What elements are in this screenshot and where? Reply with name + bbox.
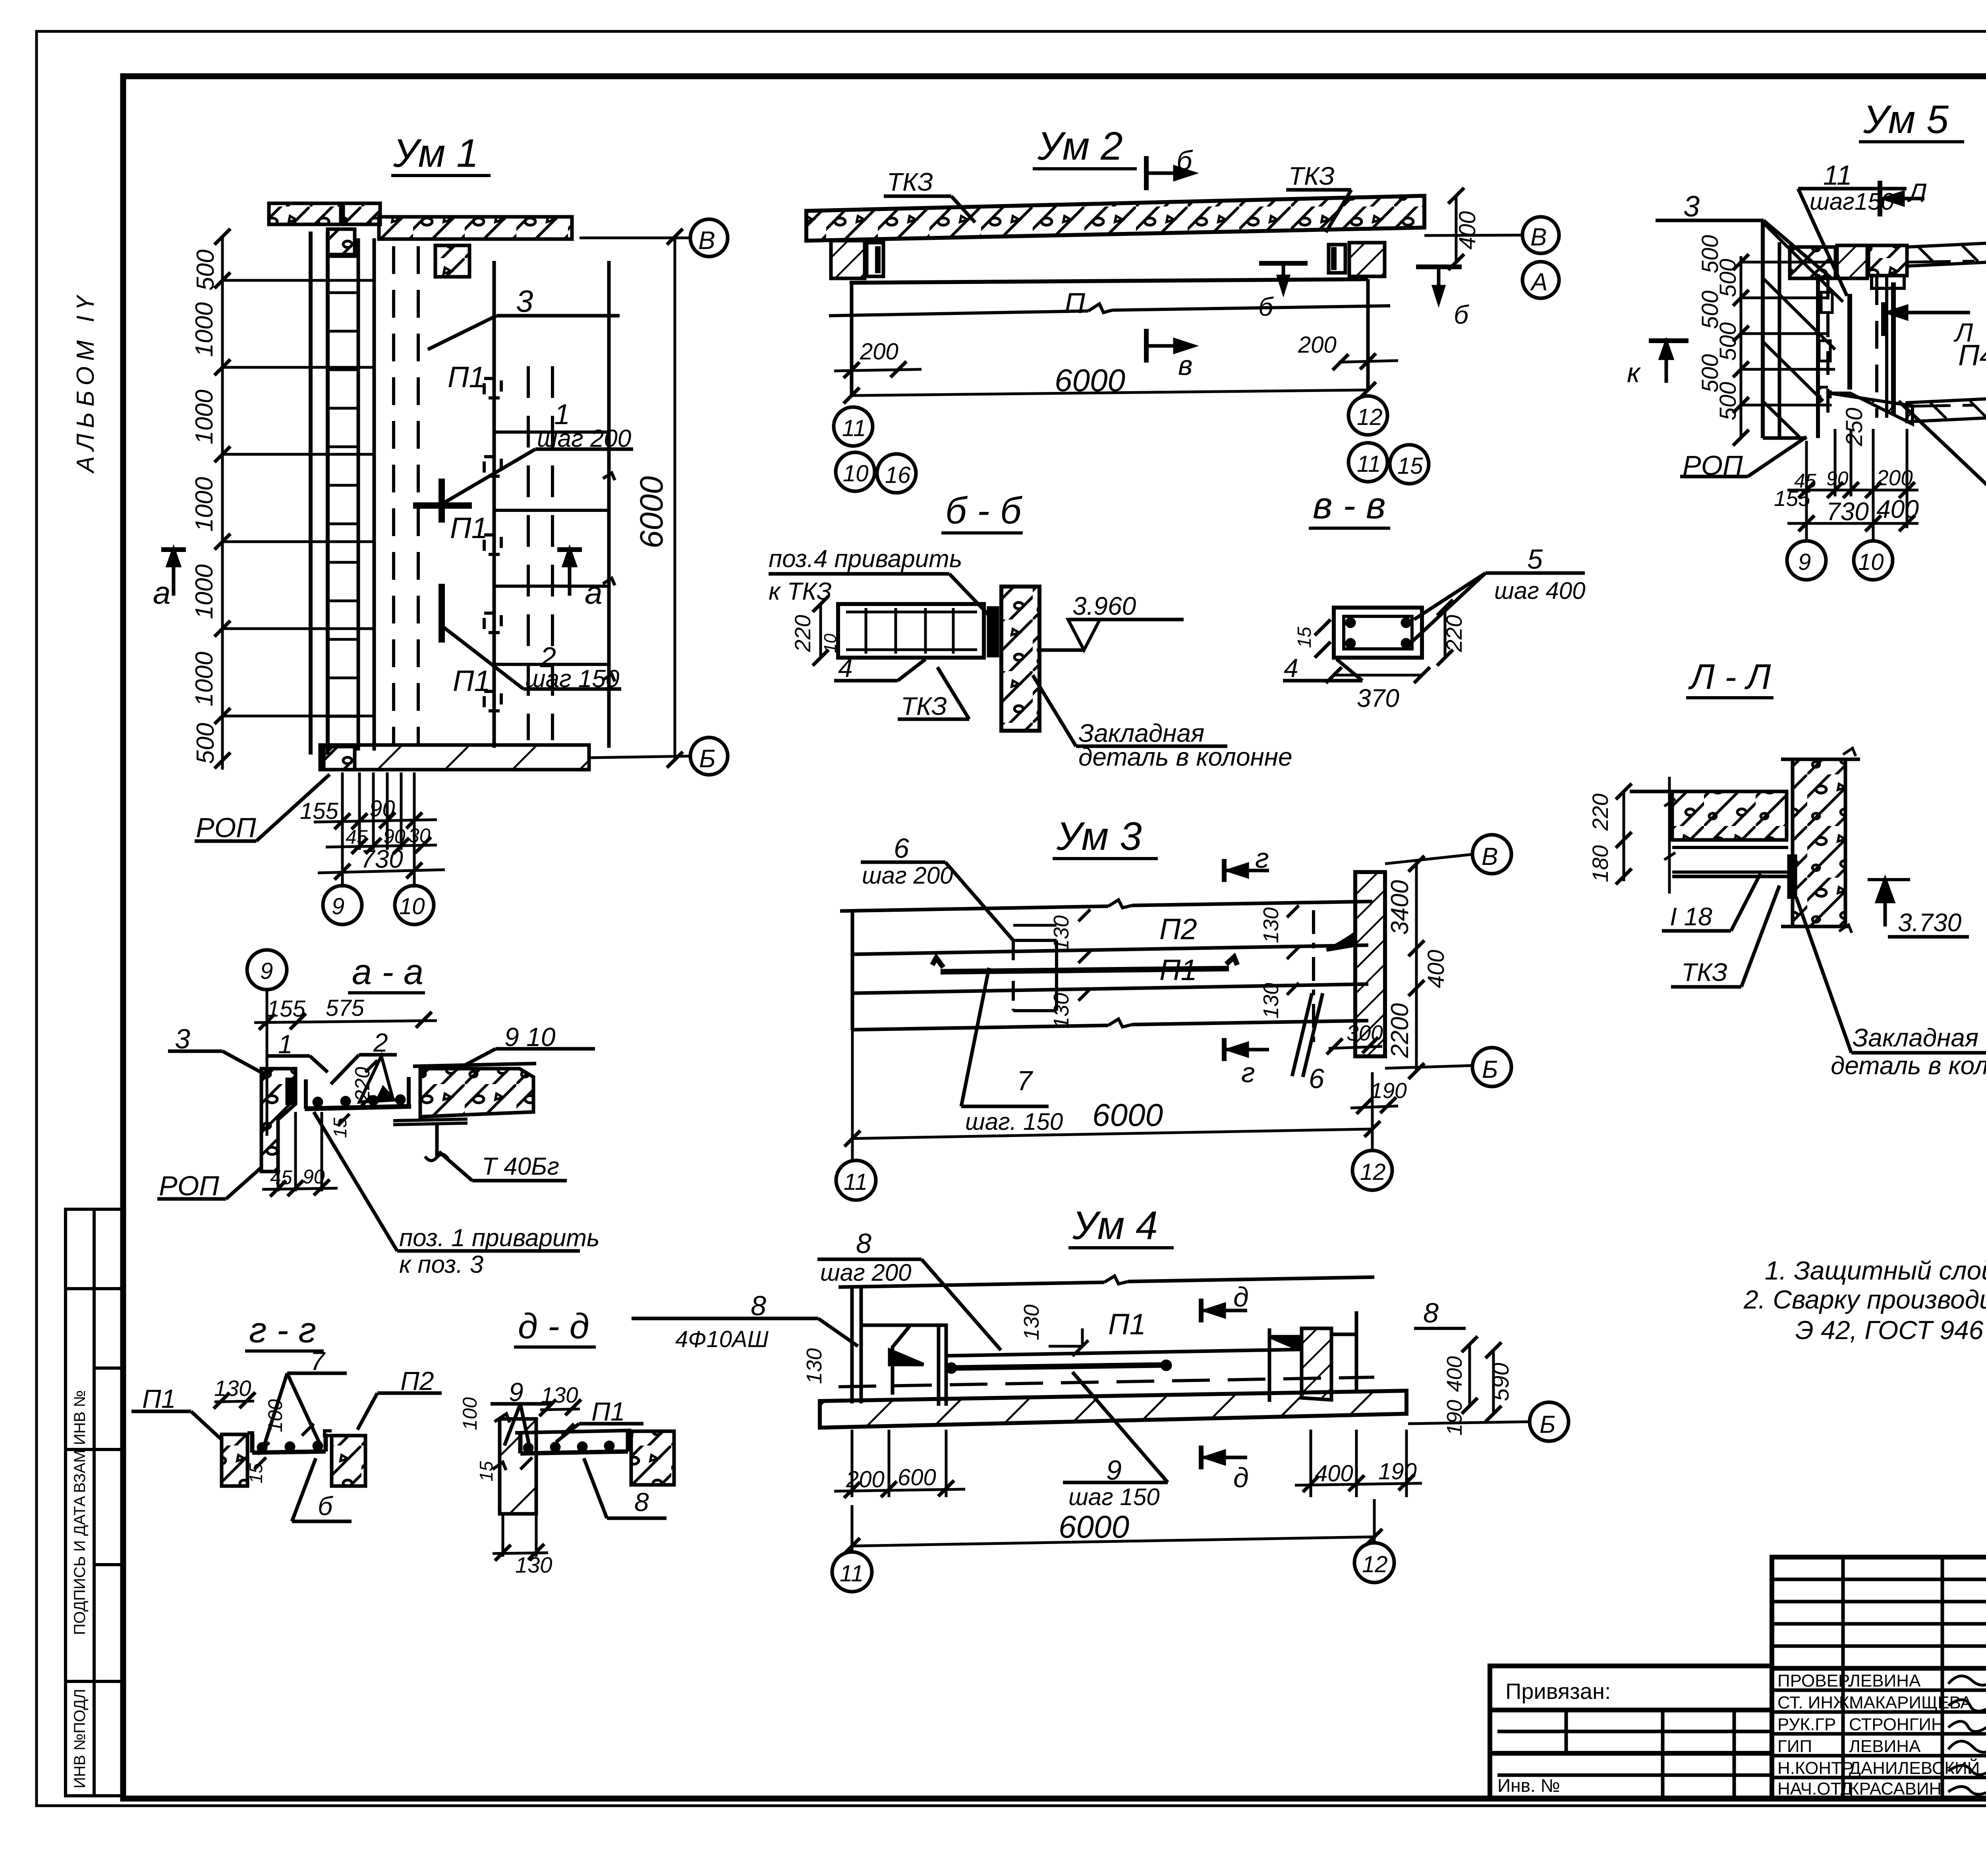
- b-b label 4 leader: [834, 679, 898, 683]
- Um5 K marks: [1649, 338, 1688, 343]
- g-g left block: [222, 1434, 247, 1486]
- svg-text:15: 15: [1294, 627, 1315, 648]
- b-b beam rect: [838, 604, 984, 658]
- L-L I18 leader: [1662, 929, 1731, 933]
- d-d slab top line: [515, 1430, 631, 1433]
- svg-text:СТРОНГИН: СТРОНГИН: [1849, 1715, 1944, 1734]
- svg-text:г: г: [1255, 843, 1269, 874]
- svg-text:730: 730: [1826, 497, 1869, 526]
- Um5 L mark bottom: [1881, 302, 1886, 336]
- svg-text:СТ. ИНЖ.: СТ. ИНЖ.: [1777, 1693, 1854, 1712]
- d-d U profile: [520, 1432, 628, 1453]
- svg-text:а: а: [585, 575, 603, 610]
- Um1 dim line 730: [318, 870, 445, 873]
- svg-text:15: 15: [330, 1117, 350, 1138]
- svg-text:1000: 1000: [191, 564, 218, 619]
- svg-text:Ум 3: Ум 3: [1056, 814, 1142, 859]
- g-g rebar dots: [259, 1444, 266, 1451]
- svg-text:4: 4: [1284, 653, 1298, 683]
- svg-text:90: 90: [1826, 467, 1849, 490]
- a-a beam U profile: [304, 1079, 308, 1109]
- a-a embedded channel dark: [287, 1079, 295, 1103]
- Um3 axis circles: [1472, 835, 1511, 874]
- Um3 slanted piece 6: [1292, 993, 1312, 1076]
- svg-text:6000: 6000: [1059, 1509, 1129, 1544]
- svg-text:АЛЬБОМ ІҮ: АЛЬБОМ ІҮ: [72, 291, 99, 474]
- svg-text:б: б: [318, 1491, 334, 1521]
- Um5 embedded plates: [1821, 292, 1832, 313]
- Um3 6000 dim: [852, 1129, 1372, 1139]
- svg-text:Закладная: Закладная: [1853, 1023, 1978, 1052]
- svg-text:6: 6: [1309, 1063, 1324, 1094]
- Um2 section mark b top: [1144, 156, 1149, 190]
- svg-text:а - а: а - а: [352, 952, 423, 992]
- L-L zakladnaya leader: [1851, 1051, 1986, 1055]
- Um5 left dim chain: [1740, 256, 1743, 439]
- b-b leaders pos4: [769, 572, 949, 576]
- svg-text:8: 8: [751, 1290, 766, 1321]
- v-v rebar dots: [1347, 619, 1354, 626]
- svg-text:11: 11: [1357, 451, 1381, 477]
- svg-text:9 10: 9 10: [504, 1022, 556, 1052]
- svg-text:155: 155: [267, 996, 306, 1022]
- svg-text:100: 100: [264, 1399, 286, 1432]
- svg-text:190: 190: [1443, 1400, 1466, 1436]
- Um3 slab top line: [840, 906, 1108, 911]
- svg-text:НАЧ.ОТД: НАЧ.ОТД: [1777, 1779, 1853, 1799]
- svg-text:12: 12: [1362, 1552, 1388, 1577]
- svg-text:6000: 6000: [1055, 363, 1125, 398]
- svg-text:шаг 150: шаг 150: [525, 665, 619, 693]
- svg-text:ПРОВЕР.: ПРОВЕР.: [1777, 1671, 1851, 1691]
- Um1 dim line row2: [326, 845, 437, 847]
- svg-text:3.960: 3.960: [1072, 592, 1136, 620]
- Um3 left edge: [851, 911, 854, 1030]
- Um3 strip verticals dash-dot: [1012, 940, 1015, 1011]
- svg-text:590: 590: [1488, 1363, 1514, 1401]
- Um5 top channel symbol: [1872, 276, 1904, 288]
- svg-text:500: 500: [1715, 382, 1741, 421]
- svg-text:КРАСАВИН: КРАСАВИН: [1849, 1779, 1942, 1799]
- Um3 break top: [1108, 900, 1132, 908]
- Um5 dim row: [1787, 489, 1918, 492]
- d-d rebar dots: [525, 1444, 532, 1451]
- svg-text:шаг 200: шаг 200: [537, 425, 631, 452]
- L-L TKZ leader: [1671, 985, 1741, 989]
- svg-text:П1: П1: [450, 511, 488, 544]
- Um3 g mark bottom: [1222, 1038, 1227, 1061]
- svg-text:90: 90: [303, 1166, 325, 1188]
- svg-text:Э 42, ГОСТ 9467-75.: Э 42, ГОСТ 9467-75.: [1795, 1315, 1986, 1345]
- svg-text:ВЗАМ ИНВ №: ВЗАМ ИНВ №: [71, 1390, 89, 1493]
- a-a ROP leader: [157, 1197, 226, 1201]
- svg-text:РОП: РОП: [1683, 450, 1743, 481]
- Um4 left formwork profile: [863, 1325, 910, 1395]
- svg-text:П1: П1: [142, 1384, 176, 1413]
- Um2 400 dim: [1455, 197, 1458, 262]
- svg-text:130: 130: [802, 1348, 826, 1384]
- svg-text:45: 45: [270, 1166, 292, 1189]
- svg-text:шаг. 150: шаг. 150: [965, 1108, 1063, 1135]
- svg-text:10: 10: [821, 633, 840, 653]
- g-g right block: [332, 1436, 365, 1486]
- Um4 slab top line: [838, 1282, 1104, 1287]
- Um5 L mark top: [1878, 181, 1882, 216]
- L-L slab hatched: [1672, 791, 1787, 840]
- b-b embedded plate: [989, 608, 997, 656]
- svg-text:ИНВ №ПОДЛ: ИНВ №ПОДЛ: [71, 1689, 89, 1789]
- Um3 dashdot vertical right: [1312, 910, 1315, 1043]
- Um1 wall vertical lines: [309, 232, 313, 755]
- svg-text:3: 3: [1683, 190, 1700, 223]
- svg-text:б: б: [1177, 145, 1193, 176]
- Um1 panel separators: [494, 430, 609, 434]
- a-a top line over right block: [413, 1063, 536, 1066]
- L-L dims left: [1623, 790, 1625, 881]
- Um1 axis circle V: [690, 219, 728, 257]
- svg-text:5: 5: [1527, 544, 1543, 575]
- svg-text:Ум 5: Ум 5: [1863, 97, 1949, 142]
- Um4 left fillet black: [890, 1350, 923, 1365]
- svg-text:130: 130: [1049, 993, 1073, 1029]
- svg-text:г - г: г - г: [249, 1310, 316, 1350]
- Um2 texts: [842, 124, 1547, 488]
- svg-text:Инв. №: Инв. №: [1497, 1775, 1560, 1796]
- Um4 bottom dims: [851, 1430, 854, 1497]
- svg-text:500: 500: [1715, 259, 1741, 297]
- svg-text:8: 8: [634, 1487, 649, 1517]
- svg-text:400: 400: [1876, 495, 1919, 523]
- g-g U profile: [252, 1434, 326, 1453]
- svg-text:поз. 1 приварить: поз. 1 приварить: [399, 1224, 600, 1252]
- g-g dim 130: [214, 1401, 254, 1402]
- Um3 callout 7 leader: [961, 1105, 1049, 1108]
- svg-text:9: 9: [260, 958, 273, 984]
- Um2 break symbol: [1088, 304, 1112, 313]
- svg-text:11: 11: [842, 415, 866, 441]
- Um2 beam top line: [850, 279, 1368, 283]
- svg-text:шаг 200: шаг 200: [862, 862, 953, 889]
- svg-text:300: 300: [1347, 1021, 1383, 1045]
- svg-text:15: 15: [476, 1461, 496, 1482]
- Um1 label 3 leader: [496, 314, 620, 318]
- Um5 top slab strip: [1907, 242, 1986, 266]
- svg-text:220: 220: [1441, 615, 1466, 652]
- svg-text:200: 200: [1876, 465, 1913, 490]
- Um4 callout 8 leader: [817, 1258, 922, 1261]
- a-a triangle insert: [359, 1056, 393, 1102]
- svg-text:400: 400: [1455, 211, 1480, 250]
- g-g callout 7 leaders: [287, 1372, 347, 1375]
- Um5 rebar 11 vertical: [1847, 294, 1852, 390]
- Um3 130 brackets left: [1013, 924, 1057, 927]
- svg-text:90: 90: [383, 825, 406, 847]
- v-v beam rect: [1334, 608, 1422, 658]
- Um2 right channel: [1329, 245, 1345, 273]
- svg-text:155: 155: [300, 798, 339, 824]
- svg-text:130: 130: [515, 1552, 552, 1577]
- d-d dim ticks 15 100: [520, 1457, 532, 1469]
- svg-text:П2: П2: [400, 1366, 434, 1395]
- Um1 texts: [153, 131, 716, 919]
- svg-text:В: В: [1530, 224, 1547, 251]
- g-g b leader: [292, 1520, 352, 1523]
- svg-text:4: 4: [838, 653, 853, 683]
- svg-text:130: 130: [541, 1382, 578, 1407]
- d-d P1 leader: [579, 1422, 643, 1426]
- svg-text:б: б: [1258, 292, 1274, 321]
- a-a texts: [159, 952, 600, 1278]
- svg-text:9: 9: [1106, 1455, 1122, 1486]
- Um4 right formwork lines: [1268, 1328, 1271, 1402]
- svg-text:100: 100: [459, 1397, 481, 1430]
- a-a I-beam below: [393, 1119, 468, 1121]
- svg-text:9: 9: [332, 894, 344, 919]
- svg-text:2200: 2200: [1386, 1003, 1414, 1058]
- Um1 axis circle B: [690, 737, 728, 775]
- svg-text:250: 250: [1841, 408, 1867, 447]
- Um5 bottom hatched band: [1829, 393, 1913, 424]
- v-v label 4 leader: [1283, 679, 1362, 683]
- notes: [1743, 1256, 1986, 1345]
- Um5 dash-dot axis lines: [1907, 259, 1986, 262]
- Um1 top slab band 2: [343, 203, 380, 224]
- Um3 callout 6 leader: [861, 861, 945, 864]
- Um4 step verticals: [937, 1325, 941, 1406]
- a-a right block hatched: [420, 1069, 533, 1117]
- a-a rebar dots: [314, 1098, 321, 1106]
- Um5 dim row 730/400: [1787, 522, 1918, 525]
- svg-text:Б: Б: [1540, 1411, 1555, 1438]
- svg-text:ТКЗ: ТКЗ: [887, 168, 933, 196]
- svg-text:ТКЗ: ТКЗ: [901, 692, 947, 720]
- svg-text:к ТКЗ: к ТКЗ: [769, 578, 832, 605]
- svg-text:к поз. 3: к поз. 3: [399, 1251, 483, 1278]
- d-d callout 9 leaders: [491, 1402, 550, 1406]
- svg-text:130: 130: [214, 1376, 251, 1401]
- svg-text:Б: Б: [1482, 1056, 1498, 1083]
- privyazan table: [1490, 1666, 1772, 1798]
- Um2 left channel: [867, 243, 883, 276]
- svg-text:220: 220: [790, 615, 815, 652]
- Um4 slab soffit line: [946, 1349, 1302, 1356]
- Um1 panel dashed verticals: [527, 366, 530, 740]
- L-L column hatched: [1793, 759, 1845, 926]
- Um1 left dimension chain line: [221, 237, 224, 770]
- svg-text:І 18: І 18: [1670, 902, 1712, 931]
- Um3 300 dim: [1329, 1046, 1382, 1048]
- svg-text:12: 12: [1357, 404, 1383, 430]
- svg-text:Ум 4: Ум 4: [1072, 1203, 1158, 1248]
- svg-text:П1: П1: [1159, 953, 1197, 986]
- svg-text:200: 200: [860, 339, 898, 365]
- d-d 8 leader: [607, 1517, 667, 1520]
- Um1 rebar mark 1: [413, 502, 472, 509]
- svg-text:220: 220: [351, 1067, 374, 1102]
- svg-text:9: 9: [1798, 549, 1811, 575]
- svg-text:Т 40Бг: Т 40Бг: [482, 1153, 559, 1180]
- svg-text:Л - Л: Л - Л: [1688, 657, 1771, 697]
- svg-text:30: 30: [408, 824, 431, 847]
- a-a dims 45 90: [277, 1119, 280, 1191]
- Um3 axis leaders: [1385, 854, 1474, 864]
- v-v texts: [1284, 484, 1586, 712]
- a-a dim line 155/575: [254, 1021, 437, 1023]
- a-a pos1 leader: [397, 1249, 580, 1253]
- g-g P1 leader: [131, 1410, 191, 1413]
- svg-text:РОП: РОП: [159, 1170, 219, 1201]
- Um2 P line: [829, 311, 1088, 316]
- Um5 grid circles: [1787, 541, 1826, 580]
- Um4 bottom hatched band: [820, 1391, 1406, 1428]
- svg-text:В: В: [698, 226, 715, 255]
- svg-text:П1: П1: [453, 664, 491, 697]
- Um2 pos b mark outer: [1416, 264, 1462, 269]
- Um3 fillet P2: [1327, 933, 1355, 950]
- svg-text:П1: П1: [591, 1397, 625, 1426]
- Um5 bottom slab strip: [1907, 398, 1986, 422]
- svg-text:3: 3: [175, 1023, 190, 1054]
- svg-text:П1: П1: [448, 361, 485, 394]
- Um2 right column block: [1349, 243, 1385, 276]
- signatures squiggles: [1948, 1676, 1986, 1794]
- Um4 long dashed line: [838, 1377, 1374, 1387]
- Um5 left wall: [1761, 220, 1765, 438]
- Um3 texts: [844, 814, 1498, 1195]
- Um1 bottom extension lines: [341, 772, 344, 888]
- svg-text:10: 10: [1858, 549, 1884, 575]
- svg-text:а: а: [153, 575, 171, 610]
- svg-text:11: 11: [1823, 160, 1852, 191]
- Um4 6000 dim: [852, 1537, 1374, 1546]
- title block texts: [1497, 1586, 1986, 1799]
- svg-text:1000: 1000: [191, 652, 218, 706]
- v-v dim 370: [1334, 674, 1422, 677]
- svg-text:Ум 2: Ум 2: [1037, 124, 1123, 168]
- d-d bottom 130 dim: [502, 1514, 504, 1557]
- svg-text:1. Защитный слой бетона прин: 1. Защитный слой бетона принят 15 мм.: [1765, 1256, 1986, 1285]
- Um3 P1 top line: [852, 984, 1368, 993]
- Um1 top slab band 1: [269, 203, 341, 224]
- Um1 small embedded block 2: [435, 245, 469, 277]
- Um1 top slab band 3: [379, 217, 572, 239]
- svg-text:400: 400: [1315, 1461, 1353, 1486]
- a-a leader 9 10: [496, 1047, 595, 1051]
- svg-text:А: А: [1530, 268, 1547, 296]
- Um4 130 mid bracket: [1081, 1328, 1084, 1346]
- Um5 wall diagonal hatch: [1763, 278, 1835, 349]
- Um2 axis leader right: [1424, 235, 1522, 235]
- d-d texts: [459, 1307, 649, 1577]
- Um5 middle verticals: [1875, 277, 1878, 418]
- Um4 right structure: [1302, 1328, 1331, 1400]
- Um3 130 brackets right: [1287, 905, 1299, 917]
- Um1 ROP leader: [195, 840, 256, 843]
- svg-text:600: 600: [898, 1465, 936, 1490]
- svg-text:200: 200: [846, 1467, 885, 1492]
- svg-text:шаг150: шаг150: [1810, 188, 1894, 215]
- Um1 grid tie lines: [222, 279, 374, 282]
- Um2 axis circles: [1522, 217, 1559, 253]
- L-L extension vertical: [1668, 777, 1671, 894]
- Um2 pos b mark inner: [1259, 261, 1308, 266]
- a-a grid circle 9: [247, 950, 287, 990]
- svg-text:10: 10: [843, 461, 869, 486]
- svg-text:15: 15: [245, 1463, 266, 1484]
- svg-text:400: 400: [1423, 950, 1449, 988]
- Um1 bottom embedded block: [324, 747, 355, 770]
- svg-text:10: 10: [399, 894, 425, 919]
- Um1 dim line row1: [314, 820, 437, 822]
- svg-text:шаг 400: шаг 400: [1494, 577, 1586, 604]
- svg-text:220: 220: [1588, 793, 1613, 831]
- Um3 190 dim: [1350, 1106, 1398, 1108]
- svg-text:1000: 1000: [191, 302, 218, 357]
- b-b dim 220: [819, 604, 822, 658]
- svg-text:П1: П1: [1108, 1308, 1146, 1341]
- svg-text:ГИП: ГИП: [1777, 1737, 1812, 1756]
- Um5 label 3 leader: [1656, 219, 1764, 222]
- Um4 axis leader B: [1408, 1422, 1531, 1424]
- Um1 wall ladder ties: [328, 254, 358, 716]
- svg-text:в: в: [1178, 350, 1193, 381]
- svg-text:130: 130: [1049, 915, 1073, 951]
- Um1 bottom slab band: [320, 745, 589, 770]
- svg-text:2. Сварку производить эл: 2. Сварку производить электродами: [1743, 1285, 1986, 1314]
- L-L texts: [1588, 657, 1986, 1080]
- Um3 P2 bottom line: [852, 945, 1368, 954]
- svg-text:7: 7: [1017, 1065, 1034, 1096]
- Um5 bottom extension lines: [1805, 441, 1808, 540]
- svg-text:1000: 1000: [191, 477, 218, 532]
- svg-text:Л: Л: [1907, 178, 1927, 207]
- svg-text:деталь в колонне: деталь в колонне: [1831, 1051, 1986, 1080]
- b-b TKZ leader: [898, 718, 969, 721]
- svg-text:ЛЕВИНА: ЛЕВИНА: [1849, 1671, 1921, 1691]
- svg-text:к: к: [1627, 357, 1641, 388]
- a-a dim 220 15: [365, 1060, 377, 1072]
- svg-text:ЛЕВИНА: ЛЕВИНА: [1849, 1737, 1921, 1756]
- d-d dim 130 top: [540, 1409, 580, 1410]
- Um1 panel right line: [607, 261, 611, 748]
- b-b column hatched: [1001, 587, 1039, 731]
- svg-text:шаг 150: шаг 150: [1068, 1484, 1160, 1510]
- Um2 grid circles: [834, 407, 873, 446]
- svg-text:Привязан:: Привязан:: [1505, 1679, 1611, 1704]
- svg-text:130: 130: [1020, 1305, 1043, 1340]
- small signatures table: [1772, 1557, 1986, 1798]
- Um4 break top: [1104, 1276, 1128, 1284]
- Um1 dimension ticks left chain: [214, 229, 230, 768]
- Um3 hooked rebar: [932, 957, 1237, 972]
- svg-text:155: 155: [1774, 486, 1810, 511]
- Um4 9 callout leader: [1063, 1481, 1168, 1484]
- Um5 top band squares: [1790, 247, 1835, 278]
- svg-text:В: В: [1482, 843, 1498, 870]
- Um1 section mark a right: [557, 547, 582, 552]
- Um1 grid circle 9: [323, 886, 362, 924]
- svg-text:3400: 3400: [1386, 880, 1414, 935]
- svg-text:6000: 6000: [634, 476, 670, 548]
- g-g dim ticks 15 100: [254, 1457, 266, 1469]
- svg-text:11: 11: [844, 1169, 867, 1195]
- svg-text:3: 3: [516, 284, 533, 318]
- svg-text:ПОДПИСЬ И ДАТА: ПОДПИСЬ И ДАТА: [71, 1496, 89, 1635]
- v-v dim 220: [1444, 608, 1447, 658]
- Um3 grid circles: [836, 1160, 876, 1200]
- Um2 beam left edge: [850, 283, 854, 395]
- Um1 section mark a left: [161, 547, 186, 552]
